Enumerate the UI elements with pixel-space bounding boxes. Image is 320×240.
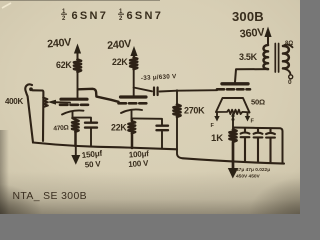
svg-text:400K: 400K	[5, 97, 23, 106]
wiper 50R to cathode node	[232, 114, 234, 130]
svg-text:450V 450V: 450V 450V	[236, 174, 261, 180]
wire secondary top terminal 8ohm	[283, 45, 293, 48]
triode 300B plate	[222, 82, 248, 85]
wire plate V2	[133, 69, 135, 96]
svg-text:47μ 47μ 0.022μ: 47μ 47μ 0.022μ	[236, 167, 270, 173]
svg-text:6SN7: 6SN7	[72, 10, 109, 22]
wire V1 plate to V2 grid	[78, 89, 119, 102]
wire cathode V2	[131, 111, 133, 119]
arrow B+ node A	[77, 47, 79, 60]
svg-text:6SN7: 6SN7	[127, 10, 164, 22]
svg-text:22K: 22K	[112, 57, 128, 67]
envelope 300B filament triangle	[216, 98, 250, 113]
arrow filament F left	[216, 113, 218, 117]
resistor 22K cathode V2	[128, 119, 135, 149]
svg-text:22K: 22K	[111, 123, 127, 133]
capacitor 47uF #1	[241, 128, 250, 161]
ground rail left	[33, 143, 177, 150]
ground arrow stage 1	[75, 146, 77, 157]
wire coupling cap to 300B grid	[160, 90, 218, 91]
svg-text:240V: 240V	[107, 38, 133, 52]
triode V1 cathode	[62, 110, 84, 114]
svg-text:300B: 300B	[232, 9, 264, 24]
triode V1 plate	[61, 98, 87, 101]
wire V2 plate to coupling cap	[134, 88, 152, 92]
ground rail right	[183, 158, 284, 163]
svg-text:NTA_ SE 300B: NTA_ SE 300B	[13, 191, 88, 202]
pot wiper arrow head	[50, 100, 56, 105]
capacitor 47uF #2	[254, 129, 263, 163]
transformer secondary	[283, 46, 289, 68]
arrow filament F right	[247, 113, 249, 117]
triode V1 grid	[60, 104, 88, 107]
label tube V1 half 6SN7	[61, 9, 108, 22]
svg-text:470Ω: 470Ω	[53, 124, 70, 132]
wire plate V1	[77, 72, 79, 98]
wire secondary bottom to 0 terminal	[283, 68, 290, 74]
resistor 470R cathode V1	[72, 118, 79, 146]
svg-text:62K: 62K	[56, 60, 72, 70]
capacitor 100uF/100V bypass V2	[132, 118, 162, 125]
arrow B+ node B	[133, 50, 135, 58]
svg-text:360V: 360V	[239, 26, 266, 40]
svg-text:50Ω: 50Ω	[251, 98, 265, 107]
arrow 360V	[267, 31, 269, 45]
svg-text:270K: 270K	[184, 106, 205, 116]
wire grid V1 to pot wiper	[53, 101, 70, 103]
pot element zigzag	[43, 98, 48, 107]
resistor 22K plate	[130, 58, 137, 70]
cathode bypass bus	[234, 128, 283, 163]
transformer core	[275, 44, 278, 73]
capacitor coupling .33uF/630V	[154, 88, 158, 96]
resistor 62K	[74, 60, 81, 72]
capacitor 150uF/50V bypass V1	[73, 118, 92, 123]
triode V2 grid	[119, 102, 147, 105]
svg-text:F: F	[251, 119, 255, 125]
ground arrow 300B cathode	[228, 168, 238, 179]
triode V2 plate	[121, 95, 147, 98]
triode 300B grid	[217, 88, 250, 91]
resistor 270K grid leak	[176, 91, 178, 105]
svg-text:1K: 1K	[211, 133, 223, 144]
filament 50R hum pot zigzag	[216, 110, 250, 114]
wire 270K to ground rail	[177, 118, 183, 159]
capacitor 0.022uF #3	[266, 129, 275, 163]
svg-text:240V: 240V	[47, 36, 73, 50]
terminal 0	[289, 75, 293, 79]
svg-text:8Ω: 8Ω	[285, 41, 293, 47]
label tube V2 half 6SN7	[118, 9, 163, 22]
resistor 1K cathode 300B	[230, 130, 237, 170]
svg-text:0: 0	[288, 79, 292, 86]
svg-text:3.5K: 3.5K	[239, 52, 258, 62]
svg-text:50 V: 50 V	[85, 159, 102, 169]
svg-text:100 V: 100 V	[128, 159, 149, 169]
triode V2 cathode	[121, 109, 142, 113]
wire primary bottom to 300B plate	[235, 69, 268, 82]
svg-text:F: F	[211, 123, 215, 129]
wire cathode V1	[72, 112, 75, 119]
